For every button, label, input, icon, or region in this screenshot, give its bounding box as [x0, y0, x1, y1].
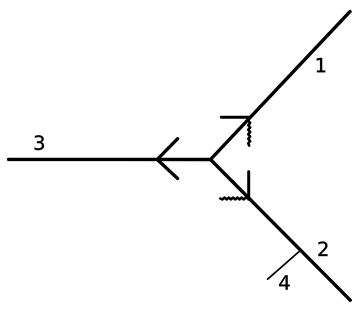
pin label 2: [318, 242, 327, 256]
arrowhead on wire 3 pointing left: [157, 139, 177, 179]
wire terminal 3 (horizontal left branch): [9, 158, 211, 162]
pin label 4: [279, 275, 289, 289]
arrowhead barb on wire 1 (solid horizontal): [221, 116, 250, 119]
arrowhead barb on wire 2 (solid vertical): [247, 172, 250, 200]
wire terminal 1 (upper-right branch): [211, 12, 351, 160]
arrowhead barb on wire 2 (wavy horizontal): [220, 198, 248, 200]
pin label 3: [35, 135, 44, 150]
leader line for pin 4: [268, 251, 301, 280]
wire terminal 2 (lower-right branch): [211, 160, 351, 301]
node N0 (center junction): [209, 158, 212, 161]
pin label 1: [317, 58, 325, 72]
arrowhead barb on wire 1 (wavy vertical): [248, 118, 250, 145]
